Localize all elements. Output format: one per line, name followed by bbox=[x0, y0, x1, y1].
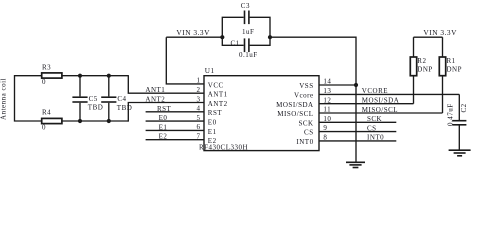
power net VIN 3.3V left label bbox=[176, 28, 210, 37]
resistor R3 bbox=[42, 73, 62, 78]
node SCK label bbox=[367, 115, 382, 123]
C3 designator bbox=[241, 2, 250, 10]
node INT0 label bbox=[367, 134, 384, 142]
node RST label bbox=[157, 105, 172, 113]
svg-text:VCC: VCC bbox=[208, 81, 224, 89]
wire INT0 pin 8 bbox=[319, 140, 396, 142]
svg-text:R3: R3 bbox=[42, 64, 51, 72]
C5 designator bbox=[89, 95, 98, 103]
pin VCC name bbox=[208, 81, 224, 89]
C5 value TBD bbox=[88, 104, 104, 112]
C1 value 0.1uF bbox=[239, 51, 258, 59]
svg-text:0.47uF: 0.47uF bbox=[446, 103, 454, 126]
svg-text:ANT2: ANT2 bbox=[208, 100, 228, 108]
C4 value TBD bbox=[117, 104, 133, 112]
svg-text:TBD: TBD bbox=[88, 104, 104, 112]
wire top rail corner down to ANT1 bbox=[128, 75, 204, 93]
resistor R2 bbox=[410, 37, 416, 104]
junction dot VSS pin 14 bbox=[354, 83, 358, 87]
wire CS pin 9 bbox=[319, 131, 396, 133]
R1 designator bbox=[447, 57, 456, 65]
wire VSS pin 14 bbox=[319, 84, 356, 86]
wire VCORE pin 13 to C2 bbox=[319, 93, 459, 95]
node E2 label bbox=[159, 133, 168, 141]
svg-text:RF430CL330H: RF430CL330H bbox=[199, 143, 248, 151]
svg-text:R2: R2 bbox=[417, 57, 426, 65]
svg-text:E0: E0 bbox=[208, 119, 217, 127]
pin Vcore name bbox=[294, 92, 314, 100]
node CS label bbox=[367, 124, 377, 132]
wire MOSI/SDA pin 12 to R2 bbox=[319, 103, 414, 105]
wire MISO/SCL pin 11 to R1 bbox=[319, 112, 443, 114]
C3 value 1uF bbox=[242, 28, 254, 36]
R1 value DNP bbox=[447, 66, 463, 74]
pin VSS name bbox=[299, 82, 313, 90]
capacitor C2 bbox=[452, 94, 466, 149]
svg-text:VIN 3.3V: VIN 3.3V bbox=[423, 28, 457, 37]
wire E1 stub bbox=[146, 129, 204, 131]
pin 9 number bbox=[323, 124, 327, 132]
capacitor C3 bbox=[222, 11, 270, 38]
svg-text:C1: C1 bbox=[231, 39, 240, 47]
R2 designator bbox=[417, 57, 426, 65]
junction dot cap network left node bbox=[220, 35, 224, 39]
junction dot bottom rail at C4 bbox=[107, 119, 111, 123]
wire RST stub bbox=[146, 111, 204, 113]
wire VIN riser down to pin 1 bbox=[166, 37, 204, 84]
svg-text:Antenna coil: Antenna coil bbox=[0, 78, 8, 120]
node ANT1 label bbox=[145, 86, 165, 94]
svg-text:VIN 3.3V: VIN 3.3V bbox=[176, 28, 210, 37]
wire cap network to VSS riser bbox=[270, 37, 356, 161]
svg-text:INT0: INT0 bbox=[296, 138, 313, 146]
R4 value 0 bbox=[42, 124, 46, 132]
C1 designator bbox=[231, 39, 240, 47]
svg-text:CS: CS bbox=[304, 129, 314, 137]
svg-text:E2: E2 bbox=[159, 133, 168, 141]
pin ANT1 name bbox=[208, 91, 228, 99]
resistor R1 bbox=[439, 37, 445, 113]
wire top rail R3 to corner bbox=[62, 75, 128, 77]
svg-text:C5: C5 bbox=[89, 95, 98, 103]
svg-text:TBD: TBD bbox=[117, 104, 133, 112]
svg-text:SCK: SCK bbox=[367, 115, 382, 123]
U1 designator bbox=[205, 67, 215, 75]
pin 12 number bbox=[323, 96, 331, 104]
svg-text:5: 5 bbox=[197, 114, 201, 122]
junction dot cap network right node bbox=[268, 35, 272, 39]
pin 4 number bbox=[197, 105, 201, 113]
svg-text:MISO/SCL: MISO/SCL bbox=[277, 110, 313, 118]
svg-text:C3: C3 bbox=[241, 2, 250, 10]
svg-text:2: 2 bbox=[197, 86, 201, 94]
pin 5 number bbox=[197, 114, 201, 122]
node MOSI/SDA label bbox=[362, 97, 399, 105]
pin 8 number bbox=[323, 134, 327, 142]
R2 value DNP bbox=[417, 66, 433, 74]
svg-text:U1: U1 bbox=[205, 67, 215, 75]
pin ANT2 name bbox=[208, 100, 228, 108]
svg-text:1uF: 1uF bbox=[242, 28, 254, 36]
pin 1 number bbox=[197, 77, 201, 85]
svg-text:4: 4 bbox=[197, 105, 201, 113]
node ANT2 label bbox=[145, 96, 165, 104]
R3 value 0 bbox=[42, 78, 46, 86]
pin INT0 name bbox=[296, 138, 313, 146]
antenna coil connector bracket bbox=[15, 76, 42, 121]
capacitor C5 bbox=[72, 76, 87, 121]
pin 2 number bbox=[197, 86, 201, 94]
ground center bbox=[346, 162, 365, 167]
power net VIN 3.3V right label bbox=[423, 28, 457, 37]
pin MOSI/SDA name bbox=[276, 101, 313, 109]
svg-text:E2: E2 bbox=[208, 137, 217, 145]
svg-text:MISO/SCL: MISO/SCL bbox=[362, 106, 398, 114]
ground right bbox=[449, 150, 471, 156]
wire E0 stub bbox=[146, 120, 204, 122]
capacitor C4 bbox=[101, 76, 116, 121]
pin RST name bbox=[208, 109, 223, 117]
svg-text:Vcore: Vcore bbox=[294, 92, 314, 100]
svg-text:INT0: INT0 bbox=[367, 134, 384, 142]
R3 designator bbox=[42, 64, 51, 72]
svg-text:1: 1 bbox=[197, 77, 201, 85]
wire bottom rail corner up to ANT2 bbox=[128, 103, 204, 122]
node E1 label bbox=[159, 123, 168, 131]
svg-text:DNP: DNP bbox=[447, 66, 463, 74]
pin 6 number bbox=[197, 123, 201, 131]
svg-text:C4: C4 bbox=[117, 95, 126, 103]
svg-text:VSS: VSS bbox=[299, 82, 313, 90]
pin 3 number bbox=[197, 95, 201, 103]
svg-text:0: 0 bbox=[42, 124, 46, 132]
R4 designator bbox=[42, 109, 51, 117]
U1 part number RF430CL330H bbox=[199, 143, 248, 151]
node E0 label bbox=[159, 114, 168, 122]
svg-text:ANT2: ANT2 bbox=[145, 96, 165, 104]
svg-text:0: 0 bbox=[42, 78, 46, 86]
svg-text:ANT1: ANT1 bbox=[208, 91, 228, 99]
svg-text:RST: RST bbox=[208, 109, 223, 117]
svg-text:CS: CS bbox=[367, 124, 377, 132]
node MISO/SCL label bbox=[362, 106, 398, 114]
svg-text:SCK: SCK bbox=[298, 119, 313, 127]
svg-text:6: 6 bbox=[197, 123, 201, 131]
svg-text:E1: E1 bbox=[159, 123, 168, 131]
pin 13 number bbox=[323, 87, 331, 95]
C4 designator bbox=[117, 95, 126, 103]
svg-text:R4: R4 bbox=[42, 109, 51, 117]
node VCORE label bbox=[362, 87, 388, 95]
antenna coil label bbox=[0, 78, 8, 120]
pin 11 number bbox=[323, 106, 331, 114]
svg-text:E0: E0 bbox=[159, 114, 168, 122]
junction dot top rail at C4 bbox=[107, 74, 111, 78]
wire bottom rail R4 to corner bbox=[62, 120, 128, 122]
pin SCK name bbox=[298, 119, 313, 127]
wire SCK pin 10 bbox=[319, 121, 396, 123]
svg-text:RST: RST bbox=[157, 105, 172, 113]
pin E2 name bbox=[208, 137, 217, 145]
svg-text:E1: E1 bbox=[208, 128, 217, 136]
svg-text:C2: C2 bbox=[460, 103, 468, 112]
pin E1 name bbox=[208, 128, 217, 136]
svg-text:MOSI/SDA: MOSI/SDA bbox=[276, 101, 313, 109]
wire E2 stub bbox=[146, 139, 204, 141]
pin MISO/SCL name bbox=[277, 110, 313, 118]
pin 14 number bbox=[323, 78, 331, 86]
C2 value 0.47uF bbox=[446, 103, 454, 126]
op-amp U1 IC body RF430CL330H bbox=[204, 76, 319, 151]
svg-text:R1: R1 bbox=[447, 57, 456, 65]
capacitor C1 bbox=[222, 37, 270, 52]
junction dot top rail at C5 bbox=[78, 74, 82, 78]
wire VIN right rail bbox=[414, 36, 443, 38]
C2 designator bbox=[460, 103, 468, 112]
svg-text:3: 3 bbox=[197, 95, 201, 103]
svg-text:MOSI/SDA: MOSI/SDA bbox=[362, 97, 399, 105]
pin 7 number bbox=[197, 133, 201, 141]
pin E0 name bbox=[208, 119, 217, 127]
svg-text:DNP: DNP bbox=[417, 66, 433, 74]
junction dot bottom rail at C5 bbox=[78, 119, 82, 123]
svg-text:7: 7 bbox=[197, 133, 201, 141]
pin CS name bbox=[304, 129, 314, 137]
wire VIN rail to cap network bbox=[166, 36, 222, 38]
pin 10 number bbox=[323, 115, 331, 123]
svg-text:VCORE: VCORE bbox=[362, 87, 388, 95]
resistor R4 bbox=[42, 118, 62, 123]
svg-text:0.1uF: 0.1uF bbox=[239, 51, 258, 59]
svg-text:ANT1: ANT1 bbox=[145, 86, 165, 94]
